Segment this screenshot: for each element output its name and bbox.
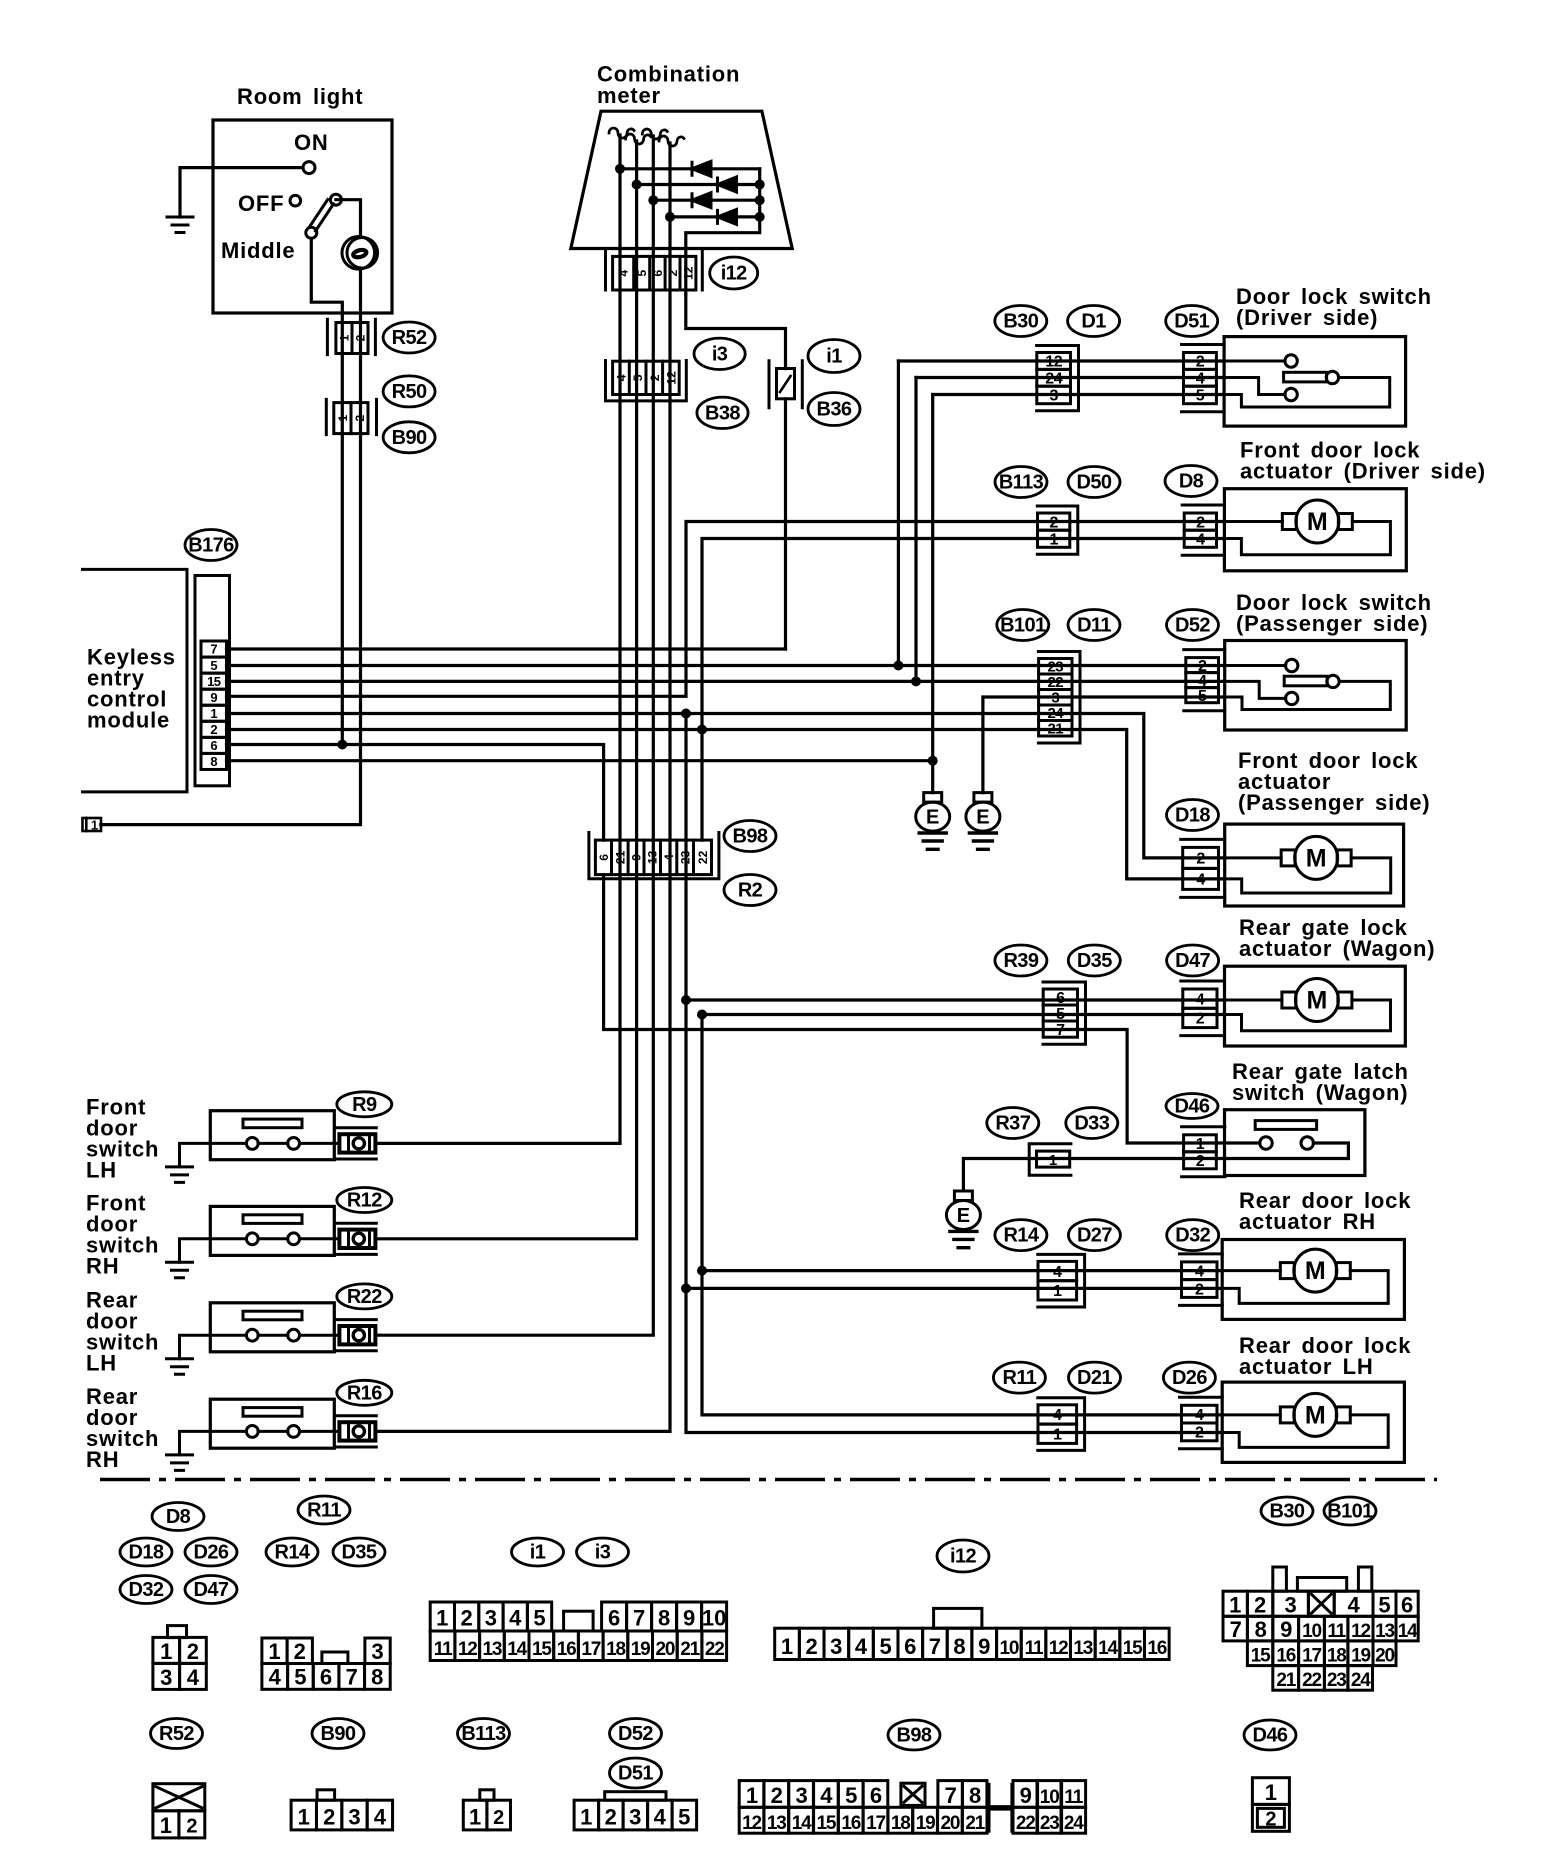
connector view label D51 xyxy=(610,1758,662,1788)
svg-text:2: 2 xyxy=(605,1804,617,1829)
svg-text:6: 6 xyxy=(870,1783,882,1808)
node B176 xyxy=(185,530,237,561)
svg-text:7: 7 xyxy=(1230,1617,1242,1642)
svg-text:R52: R52 xyxy=(159,1723,194,1745)
connector pinout B113 xyxy=(463,1790,510,1830)
svg-text:5: 5 xyxy=(1196,388,1205,405)
connector R11 D21 pins xyxy=(1038,1405,1077,1444)
connector pinout R11 R14 D35 xyxy=(262,1638,390,1690)
junction diode row 4 xyxy=(665,212,675,222)
svg-text:1: 1 xyxy=(337,334,351,341)
svg-text:B30: B30 xyxy=(1003,311,1038,333)
svg-text:D46: D46 xyxy=(1253,1725,1288,1747)
svg-text:4: 4 xyxy=(654,1804,667,1829)
node D50 xyxy=(1068,467,1120,498)
connector view label R11 xyxy=(298,1496,350,1524)
junction room light to pin 6 wire xyxy=(337,740,347,750)
svg-text:17: 17 xyxy=(1302,1646,1321,1667)
connector B101 D11 bracket xyxy=(1038,652,1080,744)
wire riser B30 pin 24 xyxy=(914,378,917,682)
front door switch RH xyxy=(180,1206,377,1262)
svg-text:5: 5 xyxy=(678,1804,690,1829)
svg-text:2: 2 xyxy=(493,1807,504,1829)
svg-text:D50: D50 xyxy=(1077,472,1112,494)
svg-text:21: 21 xyxy=(1047,721,1063,738)
connector view label i1 xyxy=(512,1538,564,1566)
connector view label B30 xyxy=(1261,1497,1313,1525)
svg-text:R14: R14 xyxy=(1003,1225,1039,1247)
connector D18 pins xyxy=(1183,847,1219,889)
node B101 xyxy=(997,610,1049,641)
svg-text:actuator (Driver side): actuator (Driver side) xyxy=(1240,459,1486,484)
svg-text:6: 6 xyxy=(320,1665,332,1690)
node B113 xyxy=(995,467,1047,498)
latch switch plunger bar xyxy=(1255,1121,1316,1130)
wire module pin 1 to D18 pin 2 xyxy=(227,714,1225,858)
svg-text:7: 7 xyxy=(633,1606,645,1631)
wire B98-7 branch to R39 pin 5 and D47 pin 2 xyxy=(702,1013,1225,1016)
connector R52 xyxy=(327,319,375,354)
junction B98-7 with R14 pin 4 wire xyxy=(697,1266,707,1276)
svg-text:2: 2 xyxy=(354,334,368,341)
svg-text:B36: B36 xyxy=(817,399,852,421)
junction riser 24 with pin 15 wire xyxy=(911,676,921,686)
connector R37 D33 xyxy=(1029,1144,1071,1176)
svg-text:12: 12 xyxy=(1049,1638,1068,1659)
connector view label D32 xyxy=(120,1576,172,1604)
svg-text:9: 9 xyxy=(1280,1617,1292,1642)
svg-text:D47: D47 xyxy=(1175,950,1210,972)
svg-text:1: 1 xyxy=(746,1783,758,1808)
room light switch arm xyxy=(310,200,334,232)
module connector B176 pins xyxy=(201,641,227,769)
svg-text:22: 22 xyxy=(1016,1813,1035,1834)
svg-text:4: 4 xyxy=(1195,1407,1204,1424)
wire pivot to lamp xyxy=(336,200,361,238)
svg-text:10: 10 xyxy=(1040,1787,1060,1808)
svg-text:6: 6 xyxy=(1401,1593,1413,1618)
svg-text:module: module xyxy=(87,708,170,733)
svg-text:4: 4 xyxy=(1053,1264,1062,1281)
svg-text:17: 17 xyxy=(866,1813,885,1834)
front door lock actuator passenger side (motor) xyxy=(1225,824,1404,906)
svg-text:D8: D8 xyxy=(1179,471,1204,493)
junction diode row 2 xyxy=(632,180,642,190)
svg-text:D18: D18 xyxy=(129,1542,164,1564)
connector view label R52 xyxy=(151,1719,203,1749)
junction diode bus xyxy=(755,212,765,222)
svg-text:22: 22 xyxy=(705,1639,724,1660)
node D1 xyxy=(1068,306,1120,337)
svg-text:19: 19 xyxy=(916,1813,935,1834)
svg-text:15: 15 xyxy=(1251,1646,1271,1667)
svg-text:2: 2 xyxy=(1196,1153,1205,1170)
svg-text:D26: D26 xyxy=(1172,1367,1207,1389)
svg-text:(Driver side): (Driver side) xyxy=(1236,305,1378,330)
connector view label D47 xyxy=(185,1576,237,1604)
svg-text:5: 5 xyxy=(1378,1593,1390,1618)
svg-text:3: 3 xyxy=(485,1606,497,1631)
node R14 xyxy=(995,1220,1047,1251)
svg-text:2: 2 xyxy=(1196,1011,1205,1028)
node R11 xyxy=(993,1362,1045,1393)
svg-text:8: 8 xyxy=(1255,1617,1267,1642)
junction B98-6 with R39 pin 6 wire xyxy=(681,995,691,1005)
svg-text:20: 20 xyxy=(1375,1646,1394,1667)
connector view label D26 xyxy=(185,1538,237,1566)
node R39 xyxy=(995,945,1047,976)
svg-text:4: 4 xyxy=(615,374,629,381)
connector pinout R52 xyxy=(153,1784,205,1838)
keyless entry control module body xyxy=(83,569,188,792)
svg-text:1: 1 xyxy=(1053,1427,1062,1444)
svg-text:D35: D35 xyxy=(1077,950,1112,972)
svg-text:16: 16 xyxy=(1147,1638,1166,1659)
svg-text:13: 13 xyxy=(1073,1638,1092,1659)
node B90 xyxy=(383,422,435,453)
svg-text:7: 7 xyxy=(929,1634,941,1659)
connector D52 bracket xyxy=(1184,650,1225,711)
svg-text:5: 5 xyxy=(533,1606,545,1631)
svg-text:LH: LH xyxy=(86,1350,117,1375)
svg-text:D51: D51 xyxy=(618,1763,653,1785)
svg-text:B101: B101 xyxy=(1327,1501,1373,1523)
wire riser B30 pin 12 xyxy=(897,361,900,666)
junction diode bus xyxy=(755,180,765,190)
wire B101 pin 3 to D52 pin 5 and ground E xyxy=(983,697,1225,793)
connector i3 B38 pins xyxy=(613,361,680,394)
junction riser 12 with pin 5 wire xyxy=(893,661,903,671)
wire to B30 pin 24 and D51 pin 4 xyxy=(916,376,1224,379)
svg-text:9: 9 xyxy=(683,1606,695,1631)
wire room light ON to ground xyxy=(180,168,303,217)
svg-text:B176: B176 xyxy=(188,535,234,557)
svg-text:(Passenger side): (Passenger side) xyxy=(1238,790,1430,815)
junction B98-6 with R14 pin 1 wire xyxy=(681,1283,691,1293)
svg-text:15: 15 xyxy=(1123,1638,1143,1659)
svg-text:3: 3 xyxy=(348,1804,360,1829)
node D51 xyxy=(1166,306,1218,337)
svg-text:Middle: Middle xyxy=(221,238,295,263)
svg-text:2: 2 xyxy=(1265,1808,1276,1830)
svg-text:13: 13 xyxy=(1375,1621,1394,1642)
svg-text:16: 16 xyxy=(557,1639,576,1660)
wire module pin 15 to D52 pin 4 xyxy=(227,680,1225,683)
connector R14 D27 pins xyxy=(1038,1261,1077,1300)
connector R11 D21 bracket xyxy=(1038,1398,1085,1451)
connector D8 bracket xyxy=(1182,505,1224,555)
wire room light switch to pin 6 net xyxy=(341,323,344,745)
svg-text:actuator RH: actuator RH xyxy=(1239,1209,1376,1234)
svg-text:M: M xyxy=(1305,1401,1326,1429)
svg-text:2: 2 xyxy=(1195,1281,1204,1298)
svg-text:1: 1 xyxy=(91,818,98,833)
svg-text:4: 4 xyxy=(855,1634,868,1659)
svg-text:R11: R11 xyxy=(307,1500,341,1522)
svg-text:2: 2 xyxy=(805,1634,817,1659)
svg-text:6: 6 xyxy=(597,854,611,861)
svg-text:B101: B101 xyxy=(1000,615,1046,637)
svg-text:4: 4 xyxy=(1053,1407,1062,1424)
svg-text:D51: D51 xyxy=(1174,311,1209,333)
wire B98-6 branch to R14 pin 1 and D32 pin 2 xyxy=(686,1287,1222,1290)
svg-text:9: 9 xyxy=(1020,1783,1032,1808)
junction B98-6 with module pin 1 wire xyxy=(681,709,691,719)
connector B90 xyxy=(326,399,376,434)
node B36 xyxy=(808,393,860,426)
svg-text:5: 5 xyxy=(631,374,645,381)
junction diode row 3 xyxy=(648,195,658,205)
wire module pin 6 to B98 cell 1 xyxy=(227,745,604,841)
svg-text:M: M xyxy=(1306,987,1327,1015)
svg-text:OFF: OFF xyxy=(238,191,284,216)
connector view label D52 xyxy=(610,1719,662,1749)
svg-text:i3: i3 xyxy=(712,343,728,365)
connector pinout B30 B101 xyxy=(1223,1567,1418,1691)
junction riser 3 with pin 8 wire xyxy=(928,756,938,766)
node D27 xyxy=(1068,1220,1120,1251)
svg-text:13: 13 xyxy=(767,1813,786,1834)
svg-text:LH: LH xyxy=(86,1157,117,1182)
svg-text:D52: D52 xyxy=(618,1723,653,1745)
rear gate lock actuator wagon (motor) xyxy=(1225,966,1406,1046)
connector B101 D11 pins xyxy=(1039,659,1072,738)
connector D52 pins xyxy=(1186,658,1219,705)
svg-text:8: 8 xyxy=(953,1634,965,1659)
connector R52 pins 1 2 xyxy=(336,323,368,354)
room light switch pivot contact xyxy=(330,194,341,205)
wire meter 4 via B98-5 to rear door switch RH xyxy=(376,143,670,1431)
diode D4 in meter xyxy=(718,209,737,225)
svg-text:1: 1 xyxy=(298,1804,310,1829)
connector D32 bracket xyxy=(1180,1254,1223,1306)
node B38 xyxy=(697,397,748,428)
svg-text:11: 11 xyxy=(434,1639,453,1660)
ground E (body) 2 xyxy=(966,793,1000,850)
svg-text:22: 22 xyxy=(696,850,710,864)
svg-text:5: 5 xyxy=(294,1665,306,1690)
svg-text:9: 9 xyxy=(978,1634,990,1659)
svg-text:3: 3 xyxy=(371,1639,383,1664)
wire B98 cell 6 to R11 pin 1 and D26 pin 2 xyxy=(686,714,1222,1433)
wire riser B30 pin 3 to ground E xyxy=(931,395,934,793)
svg-text:R11: R11 xyxy=(1003,1367,1037,1389)
door lock switch driver side xyxy=(1224,337,1406,427)
svg-text:meter: meter xyxy=(597,83,661,108)
wire meter 2 via B98-3 to front door switch RH xyxy=(376,141,636,1239)
svg-text:D8: D8 xyxy=(166,1506,191,1528)
svg-text:R16: R16 xyxy=(347,1382,382,1404)
svg-text:D35: D35 xyxy=(342,1542,377,1564)
svg-text:12: 12 xyxy=(664,371,678,385)
node i1 xyxy=(808,340,860,373)
svg-text:6: 6 xyxy=(904,1634,916,1659)
room light box xyxy=(213,120,392,313)
ground room light xyxy=(167,217,193,233)
svg-text:14: 14 xyxy=(1398,1621,1418,1642)
svg-text:14: 14 xyxy=(1098,1638,1118,1659)
svg-text:B113: B113 xyxy=(461,1723,506,1745)
node i3 xyxy=(694,338,745,369)
svg-text:18: 18 xyxy=(891,1813,910,1834)
wire meter 3 via B98-4 to rear door switch LH xyxy=(376,136,653,1335)
svg-text:i12: i12 xyxy=(721,263,747,285)
svg-text:6: 6 xyxy=(210,738,217,753)
svg-text:15: 15 xyxy=(207,674,221,689)
wire to B30 pin 12 and D51 pin 2 xyxy=(898,359,1224,362)
svg-text:1: 1 xyxy=(781,1634,793,1659)
node R2 xyxy=(724,875,776,906)
wire ground E via R37 pin 1 to D46 pin 2 latch return xyxy=(963,1143,1348,1191)
wire module pin 2 to D18 pin 4 xyxy=(227,730,1225,879)
node B30 xyxy=(995,306,1047,337)
svg-text:(Passenger side): (Passenger side) xyxy=(1236,611,1428,636)
meter coil 2 xyxy=(626,134,651,144)
svg-text:4: 4 xyxy=(269,1665,282,1690)
latch switch contacts xyxy=(1260,1137,1272,1149)
wire module pin 9 to B113 pin 2 and D8 pin 2 xyxy=(227,522,1225,697)
svg-text:13: 13 xyxy=(483,1639,502,1660)
svg-text:2: 2 xyxy=(666,270,680,277)
node D11 xyxy=(1068,610,1120,641)
svg-text:5: 5 xyxy=(879,1634,891,1659)
wire B98-6 branch to R39 pin 6 and D47 pin 4 xyxy=(686,998,1225,1001)
svg-text:2: 2 xyxy=(1195,1425,1204,1442)
svg-text:M: M xyxy=(1307,508,1328,536)
svg-text:15: 15 xyxy=(817,1813,837,1834)
connector D51 bracket xyxy=(1182,345,1225,412)
diode D2 in meter xyxy=(718,177,737,193)
svg-text:4: 4 xyxy=(509,1606,522,1631)
node D35 xyxy=(1068,945,1120,976)
svg-text:i1: i1 xyxy=(530,1542,546,1564)
svg-text:5: 5 xyxy=(635,270,649,277)
svg-text:3: 3 xyxy=(160,1665,172,1690)
connector D32 pins xyxy=(1182,1262,1218,1298)
connector B30 D1 bracket xyxy=(1037,346,1079,411)
svg-text:8: 8 xyxy=(371,1665,383,1690)
svg-text:17: 17 xyxy=(581,1639,600,1660)
wire diode row 3 xyxy=(653,199,759,202)
wire B98 cell 1 via D46 pin 1 to latch contact xyxy=(604,875,1260,1143)
connector view label i12 xyxy=(937,1540,989,1572)
connector B98 R2 bracket xyxy=(589,833,719,879)
svg-text:i1: i1 xyxy=(826,346,842,368)
svg-text:B113: B113 xyxy=(999,472,1044,494)
svg-text:8: 8 xyxy=(210,754,217,769)
svg-text:12: 12 xyxy=(682,266,696,280)
rear door lock actuator RH (motor) xyxy=(1222,1240,1404,1320)
wire module pin 8 to ground net xyxy=(227,759,933,762)
svg-text:1: 1 xyxy=(1265,1780,1277,1805)
svg-text:9: 9 xyxy=(630,854,644,861)
connector D26 bracket xyxy=(1180,1397,1223,1449)
svg-text:1: 1 xyxy=(160,1813,172,1838)
svg-text:10: 10 xyxy=(1302,1621,1321,1642)
connector i1 B36 bracket xyxy=(769,361,802,408)
rear door switch LH xyxy=(180,1303,377,1359)
rear door lock actuator LH (motor) xyxy=(1222,1382,1404,1462)
ground of rear door switch LH xyxy=(167,1359,193,1375)
svg-text:3: 3 xyxy=(1049,388,1058,405)
svg-text:1: 1 xyxy=(268,1639,280,1664)
svg-text:7: 7 xyxy=(346,1665,358,1690)
connector view label i3 xyxy=(577,1538,629,1566)
connector D47 pins xyxy=(1183,989,1217,1028)
svg-text:1: 1 xyxy=(469,1804,481,1829)
svg-text:2: 2 xyxy=(1254,1593,1266,1618)
svg-text:19: 19 xyxy=(1351,1646,1370,1667)
wire diode row 4 xyxy=(670,215,760,218)
svg-text:RH: RH xyxy=(86,1253,119,1278)
wire middle contact down xyxy=(311,238,342,322)
rear gate latch switch wagon box xyxy=(1225,1110,1365,1176)
svg-text:12: 12 xyxy=(742,1813,761,1834)
connector view label D18 xyxy=(120,1538,172,1566)
node D52 xyxy=(1167,610,1219,641)
connector D47 bracket xyxy=(1181,981,1225,1036)
room light switch middle contact xyxy=(306,227,317,238)
svg-text:16: 16 xyxy=(841,1813,860,1834)
ground E (body) 3 xyxy=(946,1191,980,1248)
connector pinout D46 xyxy=(1252,1778,1289,1832)
svg-text:9: 9 xyxy=(210,690,217,705)
svg-text:2: 2 xyxy=(186,1816,197,1838)
svg-text:12: 12 xyxy=(458,1639,477,1660)
svg-text:RH: RH xyxy=(86,1447,119,1472)
svg-text:R2: R2 xyxy=(738,880,763,902)
front door lock actuator driver side (motor) xyxy=(1224,489,1406,571)
connector B30 D1 pins xyxy=(1037,353,1071,405)
connector D26 pins xyxy=(1182,1405,1218,1441)
combination meter body xyxy=(571,111,792,248)
wire B113 pin 1 via D8 pin 4 to B98 cell 7 xyxy=(702,539,1224,841)
node D8 xyxy=(1165,466,1217,497)
connector view label B101 xyxy=(1324,1497,1376,1525)
node R52 xyxy=(383,322,435,353)
connector view label D8 xyxy=(152,1503,204,1531)
svg-text:E: E xyxy=(957,1205,970,1227)
connector i12 bracket xyxy=(606,251,703,290)
svg-text:B98: B98 xyxy=(733,826,768,848)
svg-text:21: 21 xyxy=(613,850,627,864)
svg-text:R52: R52 xyxy=(392,327,427,349)
wire i1 down to module pin 7 xyxy=(784,399,787,649)
node D26 xyxy=(1163,1362,1215,1393)
connector i12 pins xyxy=(613,256,696,290)
svg-text:14: 14 xyxy=(507,1639,527,1660)
svg-text:22: 22 xyxy=(1302,1670,1321,1691)
connector label R12 xyxy=(337,1188,392,1213)
connector D46 bracket xyxy=(1182,1127,1225,1177)
svg-text:5: 5 xyxy=(845,1783,857,1808)
connector label R9 xyxy=(337,1092,392,1117)
svg-text:18: 18 xyxy=(606,1639,625,1660)
ground of rear door switch RH xyxy=(167,1455,193,1471)
svg-text:24: 24 xyxy=(1064,1813,1084,1834)
svg-text:B30: B30 xyxy=(1270,1501,1305,1523)
node D33 xyxy=(1066,1108,1118,1139)
svg-text:2: 2 xyxy=(771,1783,783,1808)
svg-text:E: E xyxy=(926,807,939,829)
connector D46 pins xyxy=(1184,1135,1217,1170)
svg-text:7: 7 xyxy=(210,642,217,657)
svg-text:R12: R12 xyxy=(347,1190,382,1212)
svg-text:13: 13 xyxy=(646,850,660,864)
svg-text:2: 2 xyxy=(648,374,662,381)
svg-text:21: 21 xyxy=(1276,1670,1296,1691)
wire i12 to i1 connector xyxy=(686,295,786,369)
